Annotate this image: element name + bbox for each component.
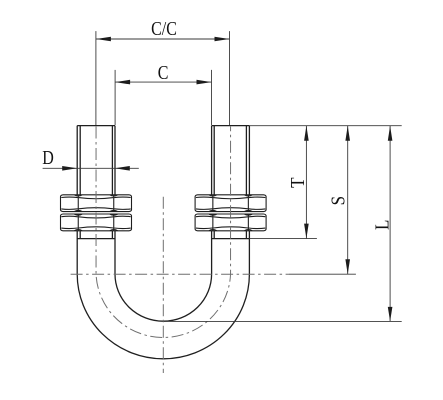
left leg thread root inner line — [111, 126, 113, 239]
L top arrow — [388, 126, 393, 141]
L bottom arrow — [388, 307, 393, 322]
horizontal centerline — [71, 273, 289, 275]
C left arrow — [115, 80, 130, 85]
D right arrow — [115, 166, 130, 171]
right nuts white backing — [196, 195, 266, 231]
U-bolt body outline — [77, 126, 249, 359]
svg-text:D: D — [42, 146, 54, 168]
D left arrow — [62, 166, 77, 171]
U-bend inner arc — [115, 274, 212, 321]
T bottom arrow — [304, 224, 309, 239]
left leg outer line — [76, 126, 78, 274]
left leg inner line — [114, 126, 116, 274]
C/C left extension line — [95, 31, 97, 125]
T top arrow — [304, 126, 309, 141]
svg-text:C/C: C/C — [151, 17, 177, 39]
C/C left arrow — [96, 37, 111, 42]
U-bend outer arc — [77, 274, 249, 359]
T bottom extension line — [249, 238, 317, 240]
arrowheads — [62, 37, 392, 322]
left leg thread runout line — [77, 238, 115, 240]
C right extension line — [211, 70, 213, 125]
svg-text:T: T — [287, 177, 310, 188]
right leg thread root outer line — [245, 126, 247, 239]
right leg thread runout line — [212, 238, 250, 240]
dimension lines and extension lines — [43, 31, 402, 321]
D dimension line — [43, 167, 139, 169]
left leg top edge — [77, 125, 115, 127]
bolt centerline path through legs and bend — [96, 127, 231, 338]
nut upper-right — [195, 195, 266, 212]
C left extension line — [114, 70, 116, 125]
svg-text:L: L — [371, 220, 394, 230]
nut upper-left — [61, 195, 132, 212]
nut lower-right — [195, 214, 266, 231]
C/C right arrow — [215, 37, 230, 42]
vertical centerline — [162, 197, 164, 373]
C right arrow — [197, 80, 212, 85]
T dimension line — [305, 126, 307, 239]
C/C dimension line — [96, 38, 230, 40]
C dimension line — [115, 81, 211, 83]
S bottom extension line — [289, 273, 356, 275]
S top arrow — [345, 126, 350, 141]
nut lower-left — [61, 214, 132, 231]
right leg outer line — [248, 126, 250, 274]
C/C right extension line — [229, 31, 231, 125]
L dimension line — [389, 126, 391, 322]
svg-text:S: S — [327, 196, 350, 205]
left nuts white backing — [61, 195, 131, 231]
centerlines — [71, 127, 289, 374]
L bottom extension line — [164, 320, 402, 322]
S dimension line — [347, 126, 349, 275]
right leg thread root inner line — [213, 126, 215, 239]
svg-text:C: C — [158, 61, 169, 83]
S bottom arrow — [345, 259, 350, 274]
top extension line for T S L — [249, 125, 401, 127]
right leg top edge — [212, 125, 250, 127]
left leg thread root outer line — [79, 126, 81, 239]
right leg inner line — [211, 126, 213, 274]
